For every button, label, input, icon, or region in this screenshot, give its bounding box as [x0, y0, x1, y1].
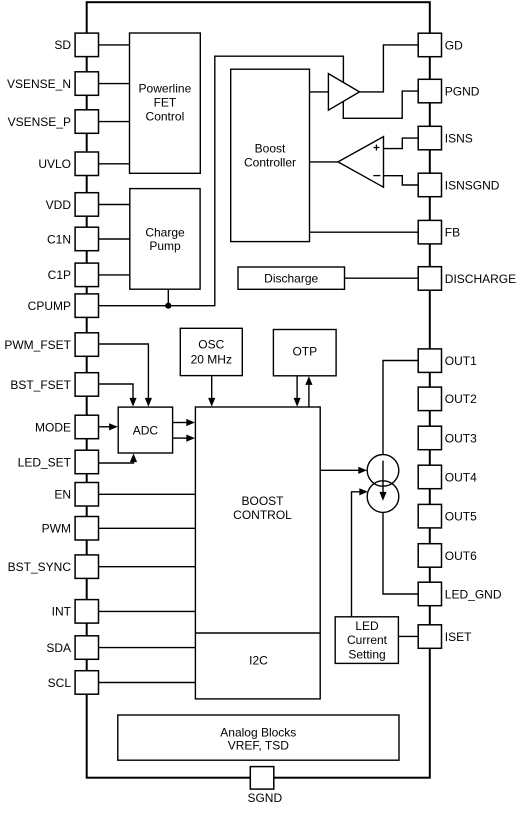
pin CPUMP	[28, 294, 99, 318]
svg-text:OTP: OTP	[292, 345, 317, 359]
wire VSENSE_N to Powerline FET Control	[99, 83, 130, 85]
wire OSC to BOOST CONTROL	[211, 376, 213, 399]
svg-text:ISNS: ISNS	[445, 131, 473, 145]
pin BST_SYNC	[8, 555, 99, 579]
block OTP	[273, 330, 336, 376]
pin EN	[54, 483, 98, 507]
arrowhead BOOST CONTROL into OTP	[305, 376, 312, 385]
pin OUT2	[418, 387, 477, 411]
svg-text:VSENSE_N: VSENSE_N	[7, 77, 71, 91]
pin OUT4	[418, 465, 477, 489]
svg-text:UVLO: UVLO	[38, 157, 71, 171]
wire ADC to BOOST CONTROL bus1	[173, 422, 188, 424]
svg-text:FB: FB	[445, 226, 460, 240]
svg-text:OSC: OSC	[198, 337, 224, 351]
svg-text:SCL: SCL	[48, 676, 72, 690]
block Discharge	[238, 267, 345, 289]
comparator U2 current sense triangle	[338, 137, 384, 188]
pin MODE	[35, 415, 99, 439]
chip outline	[87, 2, 430, 778]
svg-text:Boost: Boost	[255, 141, 286, 155]
wire BST_SYNC to BOOST CONTROL	[99, 566, 196, 568]
arrowhead PWM_FSET into ADC	[145, 398, 152, 407]
svg-text:LED: LED	[355, 619, 379, 633]
wire OTP to BOOST CONTROL	[296, 376, 298, 399]
arrowhead ADC bus2 into BOOST CONTROL	[186, 435, 195, 442]
buffer U1 gate driver triangle	[328, 74, 359, 111]
wire buffer output to GD	[360, 45, 419, 92]
pin OUT1	[418, 349, 477, 373]
block Boost Controller	[231, 69, 310, 241]
pin DISCHARGE	[418, 267, 516, 291]
svg-text:Setting: Setting	[348, 648, 385, 662]
wire PWM to BOOST CONTROL	[99, 527, 196, 529]
pin C1P	[48, 263, 99, 287]
wire BOOST CONTROL to current source	[320, 469, 358, 471]
wire EN to BOOST CONTROL	[99, 493, 196, 495]
arrowhead ADC bus1 into BOOST CONTROL	[186, 419, 195, 426]
svg-text:OUT4: OUT4	[445, 470, 477, 484]
wire SDA to I2C	[99, 647, 196, 649]
pin ISNS	[418, 126, 473, 150]
svg-text:CONTROL: CONTROL	[233, 508, 292, 522]
svg-text:MODE: MODE	[35, 420, 71, 434]
current source I1 bottom circle	[367, 481, 399, 513]
wire LED_SET to ADC	[99, 462, 134, 464]
wire CPUMP to gate-driver supply	[99, 56, 344, 306]
svg-text:VSENSE_P: VSENSE_P	[8, 115, 71, 129]
junction dot CPUMP node	[165, 303, 171, 309]
svg-text:Pump: Pump	[149, 239, 181, 253]
wire current source to LED_GND	[383, 512, 418, 594]
arrowhead OSC into BOOST CONTROL	[208, 398, 215, 407]
svg-text:FET: FET	[154, 96, 177, 110]
svg-text:Analog Blocks: Analog Blocks	[220, 725, 296, 739]
svg-text:BST_FSET: BST_FSET	[10, 378, 71, 392]
wire C1N to Charge Pump	[99, 238, 130, 240]
arrowhead LED_SET into ADC	[130, 453, 137, 462]
svg-text:Discharge: Discharge	[264, 271, 318, 285]
wire PWM_FSET to ADC	[99, 344, 149, 399]
pin OUT6	[418, 544, 477, 568]
arrowhead BOOST CONTROL into current source	[358, 467, 367, 474]
svg-text:PGND: PGND	[445, 84, 480, 98]
svg-text:INT: INT	[52, 605, 72, 619]
svg-text:OUT5: OUT5	[445, 510, 477, 524]
svg-text:DISCHARGE: DISCHARGE	[445, 272, 516, 286]
wire Discharge to DISCHARGE pin	[345, 277, 419, 279]
svg-text:LED_SET: LED_SET	[18, 455, 72, 469]
arrowhead BST_FSET into ADC	[129, 398, 136, 407]
arrowhead MODE into ADC	[109, 423, 118, 430]
wire ISET to LED Current Setting	[398, 635, 418, 637]
svg-text:OUT1: OUT1	[445, 354, 477, 368]
svg-text:SDA: SDA	[46, 641, 71, 655]
svg-text:ISNSGND: ISNSGND	[445, 178, 500, 192]
pin PWM	[42, 517, 99, 541]
svg-text:C1P: C1P	[48, 268, 71, 282]
wire LED Current Setting to current source	[352, 492, 360, 617]
wire FB to Boost Controller	[310, 231, 419, 233]
wire ADC to BOOST CONTROL bus2	[173, 437, 188, 439]
wire PGND to buffer return	[343, 91, 418, 118]
svg-text:ISET: ISET	[445, 630, 472, 644]
wire VSENSE_P to Powerline FET Control	[99, 121, 130, 123]
pin BST_FSET	[10, 373, 98, 397]
wire C1P to Charge Pump	[99, 274, 130, 276]
svg-text:BOOST: BOOST	[241, 494, 284, 508]
pin LED_SET	[18, 450, 99, 474]
wire ISNS to comparator plus	[384, 138, 419, 149]
pin PGND	[418, 79, 480, 103]
pin VDD	[46, 193, 99, 217]
wire comparator output to Boost Controller	[310, 161, 339, 163]
wire MODE to ADC	[99, 426, 111, 428]
wire ISNSGND to comparator minus	[384, 176, 419, 185]
wire Charge Pump output stub	[167, 289, 169, 306]
wire INT to BOOST CONTROL	[99, 610, 196, 612]
wire SD to Powerline FET Control	[99, 44, 130, 46]
svg-text:PWM_FSET: PWM_FSET	[4, 338, 71, 352]
wire BST_FSET to ADC	[99, 384, 134, 399]
svg-text:Charge: Charge	[145, 225, 185, 239]
current source internal arrow	[379, 461, 386, 501]
svg-text:Control: Control	[146, 109, 185, 123]
block LED Current Setting	[335, 617, 398, 664]
svg-text:OUT2: OUT2	[445, 392, 477, 406]
pin PWM_FSET	[4, 333, 98, 357]
svg-text:Powerline: Powerline	[139, 81, 192, 95]
pin SD	[54, 33, 98, 57]
svg-text:ADC: ADC	[133, 423, 159, 437]
pin OUT3	[418, 426, 477, 450]
svg-text:BST_SYNC: BST_SYNC	[8, 560, 72, 574]
block BOOST CONTROL with I2C section	[195, 407, 320, 699]
pin ISNSGND	[418, 173, 500, 197]
pin INT	[52, 600, 99, 624]
svg-text:C1N: C1N	[47, 232, 71, 246]
svg-text:LED_GND: LED_GND	[445, 587, 502, 601]
pin OUT5	[418, 504, 477, 528]
svg-text:OUT3: OUT3	[445, 431, 477, 445]
pin ISET	[418, 625, 472, 649]
current source I1 top circle	[367, 455, 399, 487]
svg-text:Current: Current	[347, 633, 388, 647]
block Powerline FET Control	[130, 33, 201, 173]
wire UVLO to Powerline FET Control	[99, 163, 130, 165]
pin VSENSE_N	[7, 72, 99, 96]
svg-text:VREF, TSD: VREF, TSD	[228, 738, 289, 752]
pin SCL	[48, 671, 99, 695]
block Charge Pump	[130, 189, 200, 290]
wire Boost Controller to buffer input	[310, 91, 329, 93]
svg-text:GD: GD	[445, 38, 463, 52]
pin LED_GND	[418, 582, 502, 606]
wire OUT1 to current source	[383, 361, 418, 455]
pin FB	[418, 220, 460, 244]
block OSC 20MHz	[180, 328, 242, 375]
wire VDD to Charge Pump	[99, 204, 130, 206]
svg-text:20 MHz: 20 MHz	[191, 353, 232, 367]
svg-text:OUT6: OUT6	[445, 549, 477, 563]
svg-text:I2C: I2C	[249, 653, 268, 667]
pin GD	[418, 33, 463, 57]
pin SGND	[247, 767, 282, 805]
pin SDA	[46, 636, 98, 660]
block Analog Blocks VREF TSD	[118, 715, 399, 760]
arrowhead OTP into BOOST CONTROL	[294, 398, 301, 407]
svg-text:SD: SD	[54, 38, 71, 52]
pin C1N	[47, 227, 99, 251]
block ADC	[118, 407, 172, 453]
svg-text:CPUMP: CPUMP	[28, 299, 71, 313]
arrowhead LED Current Setting into current source	[359, 488, 368, 495]
divider I2C section	[195, 632, 320, 634]
pin UVLO	[38, 152, 98, 176]
wire BOOST CONTROL to OTP	[308, 384, 310, 407]
svg-text:Controller: Controller	[244, 156, 296, 170]
svg-text:VDD: VDD	[46, 198, 72, 212]
svg-text:PWM: PWM	[42, 522, 71, 536]
pin VSENSE_P	[8, 110, 99, 134]
svg-text:SGND: SGND	[247, 791, 282, 805]
svg-text:EN: EN	[54, 488, 71, 502]
wire SCL to I2C	[99, 682, 196, 684]
